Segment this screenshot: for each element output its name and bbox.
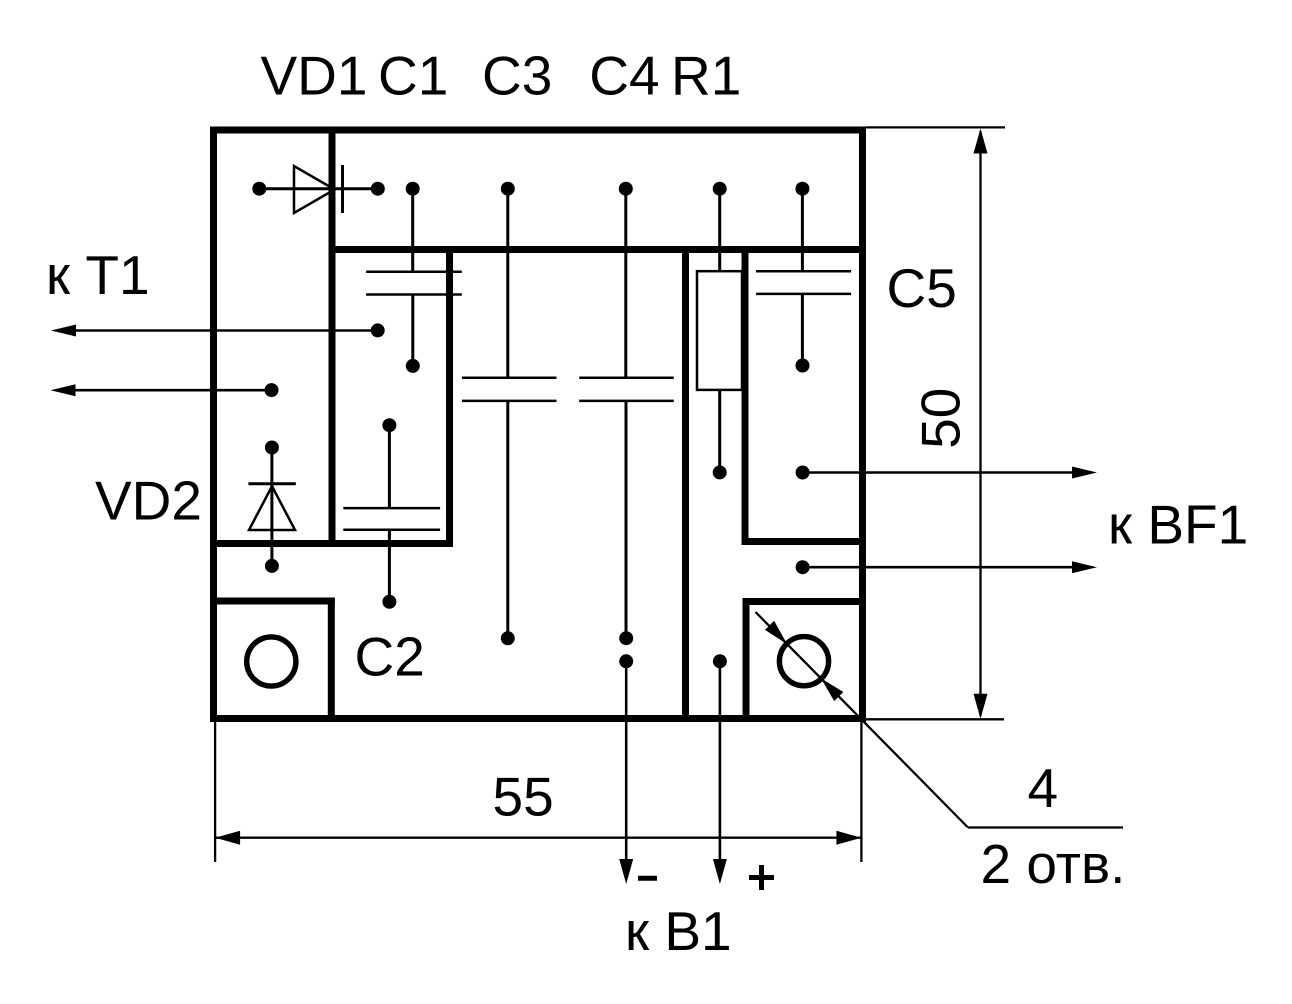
wire VD1 anode-cathode [259, 187, 378, 190]
svg-text:VD2: VD2 [95, 469, 202, 531]
svg-text:к BF1: к BF1 [1108, 493, 1248, 555]
wire C4 top [624, 189, 627, 378]
copper divider H2 (bottom of top band) [329, 246, 867, 253]
pad VD1 anode [252, 182, 266, 196]
wire to T1 (top arrow) [51, 325, 378, 337]
label plus [749, 865, 774, 890]
pad C5 top [795, 182, 809, 196]
wire to T1 (bottom arrow) [51, 384, 272, 396]
label k B1 [625, 900, 732, 962]
wire to B1 minus (down arrow) [619, 661, 633, 884]
svg-text:C1: C1 [378, 45, 448, 107]
wire C3 bottom [506, 401, 509, 638]
svg-text:C3: C3 [482, 45, 552, 107]
wire C3 top [506, 189, 509, 378]
wire C2 top [388, 425, 391, 508]
label C5 [887, 257, 957, 319]
pad C3 bottom [501, 631, 515, 645]
dimension 55 line with arrows [215, 831, 861, 845]
pad B1 minus [619, 654, 633, 668]
wire C5 bottom [801, 294, 804, 366]
label C3 [482, 45, 552, 107]
capacitor C5 [756, 271, 851, 294]
pad BF1 bottom [796, 560, 810, 574]
wire to BF1 (top arrow) [803, 467, 1097, 479]
label VD2 [95, 469, 202, 531]
svg-text:C4: C4 [589, 45, 659, 107]
pad C4 bottom [619, 631, 633, 645]
svg-text:2 отв.: 2 отв. [981, 833, 1126, 895]
wire C4 bottom [625, 401, 628, 638]
svg-text:55: 55 [493, 766, 554, 828]
wire R1 top [718, 189, 721, 272]
pad C2 bottom [382, 595, 396, 609]
svg-text:C5: C5 [887, 257, 957, 319]
wire to BF1 (bottom arrow) [803, 561, 1097, 573]
label k BF1 [1108, 493, 1248, 555]
copper divider V3 (left edge of R1 channel) [682, 246, 689, 722]
pad C2 top [382, 418, 396, 432]
svg-text:VD1: VD1 [261, 45, 368, 107]
dimension 55 extension lines [215, 722, 861, 862]
wire C5 top [801, 189, 804, 272]
leader line 2 otv [756, 612, 1124, 828]
wire C2 bottom [388, 530, 391, 602]
pad R1 top [713, 182, 727, 196]
mounting square bottom-right [743, 598, 867, 722]
label 55 [493, 766, 554, 828]
dimension 50 line with arrows [974, 129, 988, 719]
label C1 [378, 45, 448, 107]
pad BF1 top [796, 466, 810, 480]
pad C1 top [406, 182, 420, 196]
label C2 [355, 626, 425, 688]
pad B1 plus [713, 654, 727, 668]
capacitor C1 [366, 272, 462, 295]
board outline [214, 130, 863, 719]
label k T1 [46, 244, 150, 306]
copper divider H3 (bottom of C5 region) [742, 538, 867, 545]
label 50 (rotated) [910, 388, 972, 449]
wire R1 bottom [718, 390, 721, 472]
svg-text:50: 50 [910, 388, 972, 449]
copper divider V4 (left edge of C5 region) [742, 246, 749, 545]
pad T1 wire bottom [265, 383, 279, 397]
copper divider H1 (bottom of left/C1C2 regions) [210, 540, 453, 547]
label minus [638, 876, 657, 881]
copper divider V1 (left column right edge) [329, 127, 336, 548]
label R1 [671, 45, 741, 107]
svg-text:C2: C2 [355, 626, 425, 688]
pad VD1 cathode [371, 182, 385, 196]
dimension 50 extension lines [865, 127, 1005, 719]
svg-text:R1: R1 [671, 45, 741, 107]
pad C1 bottom [406, 359, 420, 373]
capacitor C3 [462, 378, 557, 401]
pad C4 top [619, 182, 633, 196]
resistor R1 [697, 271, 742, 390]
pad R1 bottom [713, 465, 727, 479]
svg-text:к В1: к В1 [625, 900, 732, 962]
pad C3 top [501, 182, 515, 196]
wire VD2 [270, 448, 273, 566]
copper divider V2 (right edge of C1/C2 region) [446, 246, 453, 547]
label 4 [1028, 757, 1059, 819]
capacitor C4 [579, 378, 674, 401]
wire to B1 plus (down arrow) [713, 661, 727, 884]
capacitor C2 [343, 508, 440, 530]
mounting square bottom-left [210, 598, 335, 723]
pad T1 wire top [371, 323, 385, 337]
pad VD2 top [265, 441, 279, 455]
pad VD2 bottom [265, 559, 279, 573]
svg-text:4: 4 [1028, 757, 1059, 819]
pad C5 bottom [796, 359, 810, 373]
label VD1 [261, 45, 368, 107]
label 2 otv [981, 833, 1126, 895]
svg-text:к Т1: к Т1 [46, 244, 150, 306]
hole left (2 otv) [247, 637, 296, 686]
diode VD2 [248, 484, 295, 530]
wire C1 bottom [411, 295, 414, 367]
wire C1 top [411, 189, 414, 272]
hole right (2 otv) [779, 637, 828, 686]
label C4 [589, 45, 659, 107]
diode VD1 [294, 165, 343, 213]
